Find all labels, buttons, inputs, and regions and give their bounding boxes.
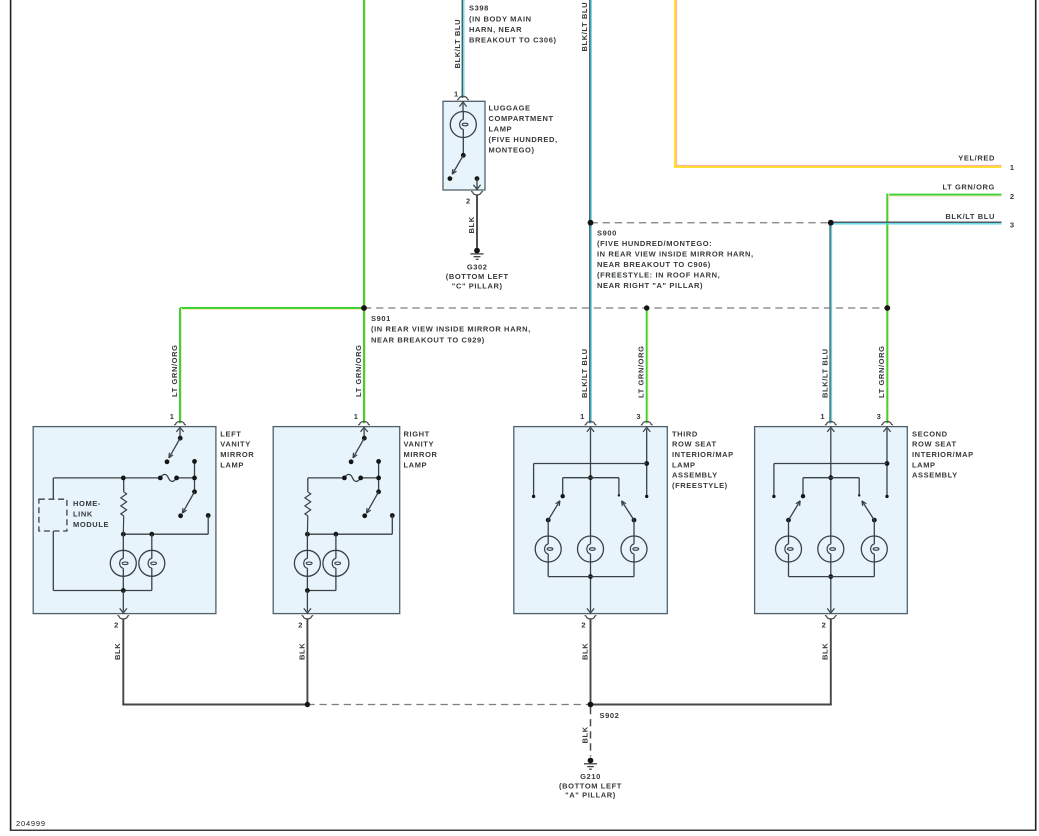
svg-text:MIRROR: MIRROR: [220, 450, 254, 459]
svg-text:HOME-: HOME-: [73, 499, 101, 508]
svg-text:BLK: BLK: [821, 643, 830, 660]
svg-text:(FIVE HUNDRED,: (FIVE HUNDRED,: [489, 135, 558, 144]
svg-text:LT GRN/ORG: LT GRN/ORG: [354, 344, 363, 397]
svg-text:MODULE: MODULE: [73, 520, 109, 529]
svg-text:BLK: BLK: [580, 643, 589, 660]
svg-text:MONTEGO): MONTEGO): [489, 146, 535, 155]
svg-text:BLK: BLK: [467, 216, 476, 233]
svg-text:INTERIOR/MAP: INTERIOR/MAP: [912, 450, 974, 459]
svg-text:LAMP: LAMP: [672, 460, 696, 469]
svg-text:BLK: BLK: [297, 643, 306, 660]
svg-text:BLK/LT BLU: BLK/LT BLU: [580, 2, 589, 52]
svg-text:3: 3: [877, 412, 882, 421]
svg-text:BLK/LT BLU: BLK/LT BLU: [945, 212, 995, 221]
svg-text:(BOTTOM LEFT: (BOTTOM LEFT: [559, 781, 622, 790]
svg-text:1: 1: [1010, 163, 1015, 172]
svg-text:COMPARTMENT: COMPARTMENT: [489, 114, 554, 123]
svg-text:G302: G302: [467, 262, 488, 271]
svg-text:2: 2: [581, 621, 586, 630]
svg-text:MIRROR: MIRROR: [404, 450, 438, 459]
svg-text:BLK: BLK: [113, 643, 122, 660]
svg-text:LT GRN/ORG: LT GRN/ORG: [877, 345, 886, 398]
svg-text:(BOTTOM LEFT: (BOTTOM LEFT: [446, 272, 509, 281]
svg-text:LUGGAGE: LUGGAGE: [489, 104, 531, 113]
svg-text:S902: S902: [600, 711, 620, 720]
svg-text:THIRD: THIRD: [672, 429, 698, 438]
svg-text:NEAR RIGHT "A" PILLAR): NEAR RIGHT "A" PILLAR): [597, 281, 703, 290]
svg-text:ASSEMBLY: ASSEMBLY: [912, 471, 958, 480]
svg-text:IN REAR VIEW INSIDE MIRROR HAR: IN REAR VIEW INSIDE MIRROR HARN,: [597, 249, 754, 258]
svg-text:1: 1: [580, 412, 585, 421]
svg-text:ROW SEAT: ROW SEAT: [912, 440, 957, 449]
svg-text:VANITY: VANITY: [220, 440, 251, 449]
svg-text:(IN BODY MAIN: (IN BODY MAIN: [469, 14, 532, 23]
svg-text:VANITY: VANITY: [404, 440, 435, 449]
svg-text:LT GRN/ORG: LT GRN/ORG: [170, 344, 179, 397]
svg-text:BLK/LT BLU: BLK/LT BLU: [821, 348, 830, 398]
svg-text:(FREESTYLE: IN ROOF HARN,: (FREESTYLE: IN ROOF HARN,: [597, 270, 720, 279]
svg-text:S398: S398: [469, 4, 489, 13]
svg-text:2: 2: [298, 621, 303, 630]
svg-text:LT GRN/ORG: LT GRN/ORG: [942, 182, 995, 191]
svg-text:(FIVE HUNDRED/MONTEGO:: (FIVE HUNDRED/MONTEGO:: [597, 239, 712, 248]
svg-text:204999: 204999: [16, 819, 46, 828]
svg-text:S900: S900: [597, 228, 617, 237]
svg-text:2: 2: [822, 621, 827, 630]
svg-text:LAMP: LAMP: [489, 125, 513, 134]
svg-text:BREAKOUT TO C306): BREAKOUT TO C306): [469, 36, 557, 45]
svg-text:HARN, NEAR: HARN, NEAR: [469, 25, 522, 34]
svg-text:G210: G210: [580, 772, 601, 781]
svg-text:2: 2: [1010, 192, 1015, 201]
svg-text:2: 2: [114, 621, 119, 630]
svg-text:1: 1: [454, 90, 459, 99]
svg-text:S901: S901: [371, 314, 391, 323]
svg-text:3: 3: [636, 412, 641, 421]
svg-text:BLK: BLK: [581, 726, 590, 743]
svg-text:LAMP: LAMP: [404, 460, 428, 469]
svg-text:LAMP: LAMP: [912, 460, 936, 469]
svg-text:1: 1: [170, 412, 175, 421]
svg-text:1: 1: [820, 412, 825, 421]
svg-text:"A" PILLAR): "A" PILLAR): [565, 791, 616, 800]
svg-text:NEAR BREAKOUT TO C929): NEAR BREAKOUT TO C929): [371, 336, 485, 345]
svg-text:(FREESTYLE): (FREESTYLE): [672, 481, 728, 490]
svg-text:LAMP: LAMP: [220, 460, 244, 469]
svg-text:BLK/LT BLU: BLK/LT BLU: [580, 348, 589, 398]
svg-text:"C" PILLAR): "C" PILLAR): [452, 282, 503, 291]
svg-text:ROW SEAT: ROW SEAT: [672, 440, 717, 449]
svg-text:INTERIOR/MAP: INTERIOR/MAP: [672, 450, 734, 459]
svg-text:SECOND: SECOND: [912, 429, 948, 438]
svg-text:3: 3: [1010, 220, 1015, 229]
svg-text:BLK/LT BLU: BLK/LT BLU: [453, 19, 462, 69]
svg-text:(IN REAR VIEW INSIDE MIRROR HA: (IN REAR VIEW INSIDE MIRROR HARN,: [371, 325, 531, 334]
svg-text:ASSEMBLY: ASSEMBLY: [672, 471, 718, 480]
svg-text:YEL/RED: YEL/RED: [958, 154, 995, 163]
svg-text:LEFT: LEFT: [220, 429, 241, 438]
svg-text:2: 2: [466, 197, 471, 206]
svg-text:1: 1: [354, 412, 359, 421]
svg-text:LINK: LINK: [73, 510, 93, 519]
svg-text:LT GRN/ORG: LT GRN/ORG: [637, 345, 646, 398]
svg-text:RIGHT: RIGHT: [404, 429, 430, 438]
svg-text:NEAR BREAKOUT TO C906): NEAR BREAKOUT TO C906): [597, 260, 711, 269]
